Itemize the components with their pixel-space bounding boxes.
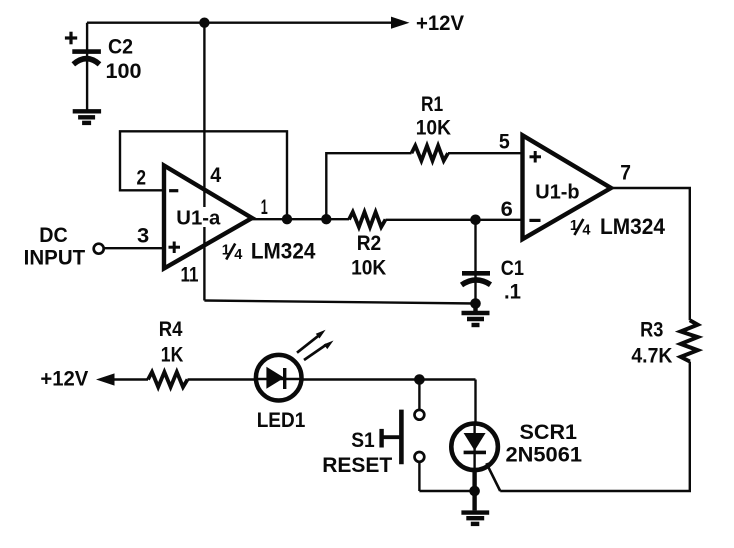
ground below SCR1 bbox=[461, 470, 489, 524]
wire R1 to pin 5 bbox=[448, 152, 523, 154]
capacitor C1 bbox=[462, 220, 491, 304]
ground below C2 bbox=[73, 111, 101, 123]
junction node output/feedback bbox=[282, 214, 292, 224]
svg-text:S1: S1 bbox=[351, 428, 375, 452]
svg-text:100: 100 bbox=[106, 59, 142, 83]
wire feedback loop U1-a bbox=[120, 131, 287, 219]
svg-text:R4: R4 bbox=[159, 317, 183, 341]
svg-text:2: 2 bbox=[137, 166, 147, 190]
svg-text:10K: 10K bbox=[416, 116, 452, 140]
wire +12V top rail bbox=[87, 22, 404, 24]
wire V+ supply pin4 to pin11 vertical bbox=[203, 23, 205, 301]
wire R3 to gate bus bbox=[500, 362, 690, 492]
junction node LED/S1 bbox=[414, 374, 425, 385]
switch S1 bbox=[382, 380, 425, 492]
svg-text:1K: 1K bbox=[161, 343, 184, 367]
junction node cathode/ground bbox=[469, 486, 480, 497]
wire pin 11 ground bus bbox=[204, 301, 475, 304]
svg-text:4.7K: 4.7K bbox=[631, 344, 672, 368]
resistor R4 bbox=[148, 372, 188, 387]
junction node C1/ground bus bbox=[470, 298, 481, 309]
svg-text:7: 7 bbox=[620, 160, 631, 184]
arrow +12V top bbox=[391, 17, 410, 29]
svg-text:INPUT: INPUT bbox=[24, 246, 86, 270]
svg-text:LM324: LM324 bbox=[251, 239, 316, 264]
svg-text:LED1: LED1 bbox=[257, 408, 306, 432]
wire anode down to SCR bbox=[474, 380, 476, 425]
junction node pin6/C1 bbox=[470, 215, 481, 226]
svg-text:.1: .1 bbox=[504, 280, 521, 304]
svg-text:R3: R3 bbox=[640, 318, 663, 342]
svg-text:1: 1 bbox=[261, 195, 268, 219]
op-amp U1-a bbox=[164, 166, 252, 269]
DC INPUT terminal bbox=[94, 244, 104, 254]
op-amp U1-b bbox=[523, 135, 612, 239]
svg-text:2N5061: 2N5061 bbox=[506, 443, 583, 467]
svg-text:10K: 10K bbox=[351, 256, 387, 280]
resistor R2 bbox=[349, 212, 386, 227]
svg-text:+12V: +12V bbox=[40, 366, 89, 390]
wire pin 3 input bbox=[104, 247, 164, 249]
svg-text:11: 11 bbox=[181, 262, 199, 286]
wire R1 branch bbox=[326, 153, 411, 219]
wire arrow to R4 bbox=[110, 378, 148, 380]
capacitor C2 bbox=[65, 23, 101, 110]
svg-text:LM324: LM324 bbox=[600, 214, 666, 239]
svg-text:4: 4 bbox=[582, 223, 590, 239]
label 1/4 LM324 (U1-b) bbox=[570, 214, 666, 239]
junction node output/R1 branch bbox=[321, 214, 331, 224]
svg-text:SCR1: SCR1 bbox=[520, 420, 578, 444]
ground below C1 bbox=[462, 304, 490, 326]
svg-text:R2: R2 bbox=[357, 231, 382, 255]
svg-text:4: 4 bbox=[234, 247, 242, 263]
svg-text:DC: DC bbox=[39, 223, 68, 247]
svg-text:C1: C1 bbox=[501, 256, 524, 280]
svg-text:R1: R1 bbox=[421, 92, 443, 116]
svg-text:U1-b: U1-b bbox=[535, 182, 579, 204]
junction top rail bbox=[199, 18, 209, 28]
LED1 bbox=[256, 330, 334, 401]
wire R2 to pin 6 bbox=[386, 219, 523, 221]
svg-text:+12V: +12V bbox=[416, 11, 465, 35]
svg-text:6: 6 bbox=[501, 197, 513, 221]
wire U1-a output row bbox=[252, 218, 349, 220]
wire U1-b output to R3 bbox=[611, 188, 690, 320]
svg-text:5: 5 bbox=[499, 130, 510, 154]
SCR1 bbox=[451, 424, 500, 492]
svg-text:4: 4 bbox=[210, 163, 221, 187]
svg-text:3: 3 bbox=[137, 223, 149, 247]
arrow +12V left bbox=[96, 373, 115, 385]
wire S1 to cathode node bbox=[419, 490, 474, 492]
svg-text:U1-a: U1-a bbox=[176, 207, 221, 229]
resistor R1 bbox=[412, 146, 449, 161]
svg-text:RESET: RESET bbox=[322, 453, 392, 477]
svg-text:C2: C2 bbox=[108, 35, 133, 59]
label 1/4 LM324 (U1-a) bbox=[222, 239, 316, 264]
resistor R3 bbox=[681, 320, 698, 361]
wire R4 to LED bbox=[188, 378, 476, 380]
